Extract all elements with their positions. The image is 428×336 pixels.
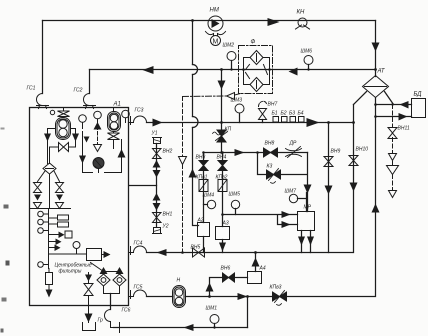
filter unit F dash-dot box [239, 46, 273, 94]
tank A1 outline [30, 108, 129, 306]
unit2 lower valve [108, 132, 120, 149]
arrow to BD [399, 113, 408, 121]
wire GS6 tank drop [110, 294, 112, 310]
gauge ShM3 [235, 104, 244, 113]
filter pilot dash-dot line [183, 94, 241, 97]
flow arrow H2 left near filter [289, 68, 298, 76]
wire MR drops [302, 231, 311, 253]
wire AT left diagonal [354, 92, 367, 105]
hose GS3 [129, 116, 147, 124]
svg-text:НМ: НМ [210, 8, 219, 14]
wire BD top line [376, 104, 412, 106]
wire ShM2 stem [231, 61, 233, 70]
wire H6 drain line [147, 252, 353, 254]
valve VN11 [388, 128, 397, 139]
svg-text:ВН7: ВН7 [268, 102, 278, 108]
svg-text:ВН10: ВН10 [356, 147, 369, 153]
wire H4 to valve block [204, 152, 308, 154]
wire A2 riser from H1 with hops over H2 and H3 [193, 21, 199, 226]
svg-text:МР: МР [304, 205, 312, 211]
arrow down A3 drop [219, 243, 226, 252]
flow arrow H2 left [143, 66, 154, 74]
svg-text:Б2: Б2 [281, 111, 287, 117]
svg-text:Б4: Б4 [298, 111, 304, 117]
centrifugal filter 2 [104, 267, 127, 306]
check valve KN [296, 18, 310, 29]
wire U-column sampling line [156, 144, 158, 227]
wire A4 riser to H6 [255, 253, 257, 272]
svg-text:M: M [213, 39, 219, 46]
unit1 right drop with valve [50, 129, 80, 164]
svg-text:Ф: Ф [251, 40, 256, 46]
unit A3 [216, 227, 230, 240]
wire VN6 branch riser [210, 278, 223, 297]
pump NM [206, 16, 226, 36]
wire U-column tank stub [130, 185, 157, 187]
drain line VN11 dashed [392, 105, 394, 190]
arrows into MR [282, 211, 291, 218]
svg-text:ГС4: ГС4 [134, 241, 143, 247]
unit A2 [198, 223, 210, 237]
flow arrow H6 left [157, 249, 167, 256]
wire K3 loop [258, 153, 308, 212]
valve K3 [267, 169, 281, 184]
wire ShM5 stem [235, 209, 237, 215]
valve VN7 [259, 101, 267, 119]
svg-text:ДР: ДР [289, 141, 298, 147]
gauge ShM2 [227, 52, 236, 61]
svg-text:У1: У1 [152, 131, 158, 137]
svg-text:ВН1: ВН1 [163, 212, 173, 218]
wire VN10 column [353, 105, 355, 253]
wire H1 top pressure line [43, 20, 376, 22]
svg-text:КПв1: КПв1 [196, 175, 208, 181]
pump unit 2 [108, 109, 121, 132]
svg-text:ВН5: ВН5 [191, 245, 201, 251]
valve VN4 [218, 161, 227, 171]
wire H3 pressure line GS3 to AT [147, 122, 354, 124]
gauge ShM4 [207, 200, 215, 208]
svg-text:ВН9: ВН9 [331, 149, 341, 155]
wire VN7 stem [262, 120, 264, 123]
arrow from BD [400, 101, 409, 109]
flow arrow H4 [235, 149, 245, 156]
relief valve KP [213, 130, 228, 142]
suction strainer [43, 163, 56, 174]
valve VN9 [324, 157, 333, 167]
drain column Gr [83, 273, 96, 331]
dashed drain line x182 [182, 97, 184, 253]
wire AT top riser [375, 21, 377, 77]
flow arrow H7 [238, 293, 248, 300]
heater box [87, 249, 111, 261]
arrows in tank [94, 122, 102, 130]
pump unit 1 [50, 109, 70, 140]
wire AT right diagonal [385, 92, 394, 105]
svg-text:ГС1: ГС1 [27, 86, 36, 92]
dashed pilot in tank [97, 121, 99, 144]
svg-text:ГС6: ГС6 [122, 308, 131, 314]
svg-text:ШМ7: ШМ7 [285, 189, 297, 195]
gauge ShM5 [231, 200, 239, 208]
svg-text:А2: А2 [197, 218, 204, 224]
wire VN4 column [222, 153, 224, 253]
svg-text:ГС2: ГС2 [74, 88, 83, 94]
wire VN9 column [328, 123, 330, 253]
valve VN10 [349, 156, 358, 166]
svg-text:БД: БД [414, 92, 423, 98]
unit1 left drop [44, 129, 56, 164]
arrow down U column 2 [153, 203, 161, 211]
reducer KPv2 [218, 180, 227, 192]
hollow arrow 1 [389, 154, 397, 161]
funnel drain [387, 166, 399, 175]
pilot open arrow [227, 93, 235, 100]
svg-text:КПв2: КПв2 [216, 175, 228, 181]
hose GS5 [129, 290, 147, 299]
relief valve KPv3 [273, 291, 287, 306]
centrifugal filter 1 [97, 267, 110, 294]
svg-text:КПв3: КПв3 [270, 285, 282, 291]
terminals B1 B2 B3 B4 [273, 117, 304, 123]
wire ShM4 stem [204, 204, 208, 206]
svg-text:А4: А4 [259, 266, 266, 272]
heater box feed [49, 242, 87, 255]
svg-text:ГС3: ГС3 [135, 108, 144, 114]
wire drop to hose GS2 [89, 70, 91, 94]
svg-text:ВН6: ВН6 [221, 266, 231, 272]
tank internal header [31, 208, 71, 210]
hydraulic motor MR [298, 212, 315, 231]
wire VN3 column [203, 153, 205, 253]
wire ShM1 stem [214, 324, 216, 328]
arrow down VN9 [325, 186, 333, 195]
svg-text:ВН3: ВН3 [196, 155, 206, 161]
arrow up A4 riser [252, 258, 260, 267]
wire drop to hose GS1 [42, 21, 44, 94]
svg-text:ШМ6: ШМ6 [301, 49, 313, 55]
arrow up VN6 riser [206, 283, 214, 292]
wire ShM6 stem [308, 65, 310, 70]
svg-text:АТ: АТ [377, 69, 386, 75]
wire H7 pump line [147, 296, 273, 298]
big flow arrow H3 [307, 118, 320, 127]
svg-text:ШМ1: ШМ1 [206, 306, 218, 312]
arrow down U column [153, 170, 161, 178]
leg valve right [56, 183, 64, 209]
arrow up AT column [372, 204, 380, 213]
gauge ShM6 [304, 56, 313, 65]
svg-text:фильтры: фильтры [59, 269, 82, 275]
strainer legs [38, 171, 60, 209]
arrow down VN10 [350, 183, 358, 192]
wire GS6 return riser [247, 297, 249, 328]
level gauge tube [46, 269, 53, 298]
heat exchanger AT [363, 76, 389, 98]
sampler U1 [153, 138, 162, 144]
hose GS2 [84, 94, 96, 109]
flow arrow GS3 [153, 119, 163, 127]
branch arrows [49, 231, 73, 251]
hollow arrow 2 [389, 191, 397, 198]
gauge ShM7 [289, 194, 297, 202]
wire AT main column to H7 [286, 98, 376, 297]
leg valve left [34, 183, 42, 209]
wire H8 tank return [114, 327, 248, 329]
reducer KPv1 [199, 180, 208, 192]
arrow up U column 2 [153, 193, 161, 201]
wire ShM3 stem [239, 114, 241, 123]
motor M [211, 36, 221, 46]
valve VN8 [264, 148, 278, 157]
valve VN2 [153, 149, 162, 159]
svg-text:А1: А1 [113, 102, 121, 108]
valve VN1 [153, 213, 162, 223]
svg-text:Н: Н [177, 278, 181, 284]
hose GS1 [37, 94, 49, 109]
cooler coil [93, 158, 104, 170]
hose GS6 [105, 310, 120, 333]
svg-text:Б3: Б3 [289, 111, 295, 117]
svg-text:ГС5: ГС5 [134, 285, 143, 291]
valve VN3 [199, 161, 208, 171]
unit2 gauges [94, 110, 130, 125]
hollow arrow on dashed line [179, 157, 187, 165]
svg-text:КП: КП [225, 127, 232, 133]
svg-text:А3: А3 [222, 221, 229, 227]
page margin smudges [1, 128, 10, 333]
svg-text:Гр: Гр [98, 318, 104, 324]
hose GS4 [129, 246, 147, 254]
wire VN6 to A4 [234, 277, 248, 279]
flow arrow down AT riser [372, 43, 380, 52]
svg-text:ВН11: ВН11 [398, 126, 410, 132]
svg-text:ШМ4: ШМ4 [203, 193, 215, 199]
svg-text:Б1: Б1 [272, 111, 278, 117]
svg-text:ВН8: ВН8 [265, 141, 275, 147]
centrifugal filter feed [91, 263, 120, 272]
arrows below MR [298, 237, 305, 246]
svg-text:ВН4: ВН4 [217, 155, 227, 161]
arrow up U column [153, 160, 161, 168]
throttle DR [286, 147, 302, 158]
valve VN5 [193, 248, 205, 257]
svg-text:КН: КН [297, 10, 306, 16]
wire ShM7 stem [298, 193, 307, 212]
hop arc over H2 [193, 65, 198, 75]
wire H5 feed to MR [223, 215, 298, 225]
svg-text:К3: К3 [267, 164, 273, 170]
arrow down to MR [304, 185, 312, 194]
svg-text:ВН2: ВН2 [163, 149, 173, 155]
svg-text:ШМ5: ШМ5 [229, 192, 241, 198]
valve VN6 [223, 273, 235, 282]
flow arrow H8 left [184, 324, 194, 331]
arrow up A2 riser [189, 169, 197, 178]
unit A4 [248, 272, 262, 284]
gauge ShM1 [210, 315, 219, 324]
pump N [173, 286, 186, 308]
svg-text:У2: У2 [163, 224, 169, 230]
svg-text:ШМ2: ШМ2 [223, 43, 235, 49]
hop arc over H3 [193, 117, 199, 128]
gauge on unit 1 [79, 115, 87, 129]
sampler U2 [153, 228, 162, 234]
wire H2 return line through filter [90, 69, 376, 71]
level ladder [38, 209, 49, 269]
heater elements [49, 215, 69, 227]
wire BD bottom line [376, 116, 412, 118]
filter bridge [244, 51, 270, 92]
arrow down KP riser [218, 81, 226, 90]
tank BD [412, 99, 426, 118]
hollow arrow in tank [94, 145, 102, 152]
svg-text:ШМ3: ШМ3 [231, 98, 243, 104]
wire KP branch from H2 down to H4 [221, 70, 223, 153]
flow arrow H1 [268, 18, 280, 26]
